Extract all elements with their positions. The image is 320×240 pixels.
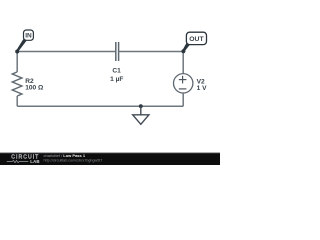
label R2 [25,78,34,85]
wire right vertical top [182,52,184,74]
label C1 value 1 uF [110,76,123,83]
watermark logo CIRCUIT [11,155,39,161]
flag OUT [182,32,206,51]
watermark logo waveform [7,160,29,162]
watermark title text [44,153,86,158]
wire top right segment [119,51,183,53]
ground [133,106,149,124]
svg-text:http://circuitlab.com/c/brx7bg: http://circuitlab.com/c/brx7bghgw5t7 [44,159,103,163]
wire right vertical bottom [182,93,184,106]
svg-text:1 µF: 1 µF [110,76,123,83]
label C1 [112,68,121,75]
capacitor C1 [116,42,119,61]
node OUT [181,49,185,53]
svg-text:OUT: OUT [189,36,204,43]
wire bottom [17,105,183,107]
flag IN [16,30,33,52]
svg-text:charlottef / Low Pass 1: charlottef / Low Pass 1 [44,153,86,158]
watermark url text [44,159,103,163]
voltage source V2 [174,74,193,93]
svg-text:LAB: LAB [30,159,39,164]
node ground junction [139,104,143,108]
wire left vertical bottom [16,96,18,106]
svg-text:100 Ω: 100 Ω [25,85,44,92]
watermark bar [0,153,220,165]
wire left vertical top [16,52,18,72]
label R2 value 100 Ohm [25,85,44,92]
wire top left segment [17,51,115,53]
resistor R2 [12,72,22,96]
label V2 value 1 V [197,85,207,92]
svg-text:IN: IN [25,33,32,40]
node IN [15,50,19,54]
svg-text:1 V: 1 V [197,85,207,92]
label V2 [197,79,205,86]
svg-text:C1: C1 [112,68,121,75]
watermark logo LAB [30,159,39,164]
